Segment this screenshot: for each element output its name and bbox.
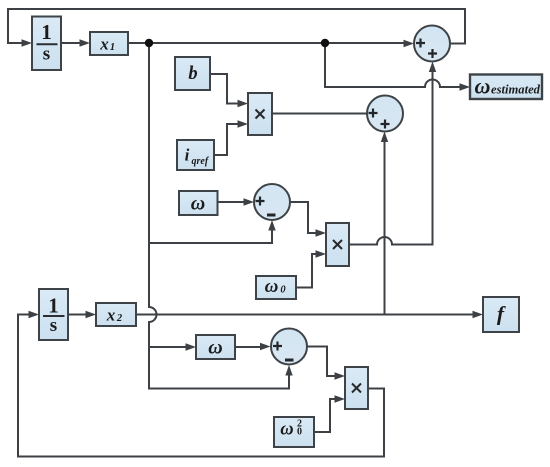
- block iqref: [177, 140, 214, 170]
- wire omega0 block to multiplier M2 lower input: [296, 254, 320, 288]
- wire x1 second branch to omega_estimated with hop over vertical: [325, 43, 464, 87]
- svg-text:s: s: [50, 315, 57, 336]
- svg-text:s: s: [43, 44, 50, 65]
- block omega (upper): [179, 191, 218, 215]
- wire branch x=149 to lower omega block: [149, 346, 190, 348]
- wire b block to multiplier M1 upper input: [210, 74, 242, 104]
- wire iqref block to multiplier M1 lower input: [214, 124, 242, 155]
- wire from f line up to sum S2 bottom input: [384, 138, 386, 315]
- junction dot B on x1 line: [321, 39, 329, 47]
- block omega0: [256, 276, 296, 299]
- svg-text:ω: ω: [280, 420, 293, 440]
- arrowhead into M1 upper input: [238, 100, 249, 107]
- arrowhead into M2 lower input: [316, 250, 327, 257]
- arrowhead into sum S4 bottom: [285, 365, 292, 376]
- wire lower omega block to sum S4 left: [235, 346, 264, 348]
- arrowhead into M3 upper input: [335, 372, 346, 379]
- svg-text:b: b: [188, 64, 197, 84]
- multiplier M3: [345, 367, 368, 409]
- svg-text:x: x: [99, 35, 109, 54]
- integrator block 1/s (lower): [39, 289, 68, 340]
- wire upper omega block to sum S3 left: [218, 201, 249, 203]
- arrowhead into M3 lower input: [335, 395, 346, 402]
- arrowhead into integrator 1: [22, 39, 33, 46]
- arrowhead into sum S1 bottom: [429, 62, 436, 73]
- block omega_estimated: [470, 74, 542, 100]
- arrowhead into sum S4 left: [260, 343, 271, 350]
- block b: [175, 57, 210, 90]
- svg-text:1: 1: [48, 294, 59, 318]
- wire integrator 1 output to block x1: [61, 42, 84, 44]
- arrowhead into M2 upper input: [316, 229, 327, 236]
- sum S1: [414, 26, 450, 62]
- block omega0 squared: [274, 417, 314, 447]
- svg-text:i: i: [185, 146, 190, 165]
- arrowhead into lower omega block: [186, 343, 197, 350]
- svg-text:ω: ω: [191, 193, 205, 215]
- wire multiplier M2 output up to sum S1 bottom with hop: [349, 67, 433, 245]
- wire x2 output to block f: [136, 314, 477, 316]
- block x2: [96, 303, 136, 326]
- svg-text:x: x: [106, 306, 116, 325]
- arrowhead into M1 lower input: [238, 120, 249, 127]
- wire x1 branch down column x=149 with hop over f line, to sum S4 bottom: [149, 43, 289, 389]
- arrowhead into x1: [80, 39, 91, 46]
- svg-text:estimated: estimated: [491, 83, 541, 97]
- svg-text:1: 1: [110, 42, 115, 53]
- arrowhead into omega_estimated: [460, 83, 471, 90]
- arrowhead into x2: [86, 311, 97, 318]
- wire omega0 squared block to multiplier M3 lower input: [314, 399, 339, 432]
- wire x1 output to sum S1 left input: [128, 42, 408, 44]
- svg-text:qref: qref: [192, 156, 210, 167]
- multiplier M2: [326, 223, 349, 266]
- wire multiplier M3 output feedback loop to integrator 2 input: [18, 315, 384, 457]
- wire feedback loop from sum S1 output around top to integrator 1 input: [8, 9, 465, 44]
- wire sum S3 output to multiplier M2 upper input: [290, 202, 320, 233]
- arrowhead into f: [473, 311, 484, 318]
- arrowhead into sum S3 left: [244, 198, 255, 205]
- arrowhead into sum S3 bottom: [268, 220, 275, 231]
- arrowhead into integrator 2: [29, 311, 40, 318]
- wire sum S4 output to multiplier M3 upper input: [308, 347, 340, 377]
- svg-text:0: 0: [280, 285, 286, 296]
- svg-text:ω: ω: [208, 337, 222, 359]
- sum S2: [367, 96, 403, 132]
- sum S4: [271, 329, 307, 365]
- block omega (lower): [196, 335, 235, 359]
- junction dot A on x1 line: [145, 39, 153, 47]
- svg-text:ω: ω: [265, 276, 279, 297]
- sum S3: [254, 184, 290, 220]
- svg-text:2: 2: [116, 313, 123, 324]
- arrowhead into sum S2 bottom: [381, 132, 388, 143]
- wire integrator 2 output to x2: [68, 314, 90, 316]
- svg-text:1: 1: [41, 20, 52, 44]
- block x1: [90, 32, 128, 55]
- svg-text:ω: ω: [475, 74, 491, 99]
- svg-text:0: 0: [297, 427, 302, 438]
- arrowhead into sum S1 left: [404, 40, 415, 47]
- multiplier M1: [248, 93, 272, 135]
- integrator block 1/s (upper): [32, 17, 61, 71]
- wire multiplier M1 output to sum S2 left: [272, 113, 367, 115]
- wire branch x=149 to sum S3 bottom input: [149, 226, 272, 243]
- block f: [483, 297, 519, 332]
